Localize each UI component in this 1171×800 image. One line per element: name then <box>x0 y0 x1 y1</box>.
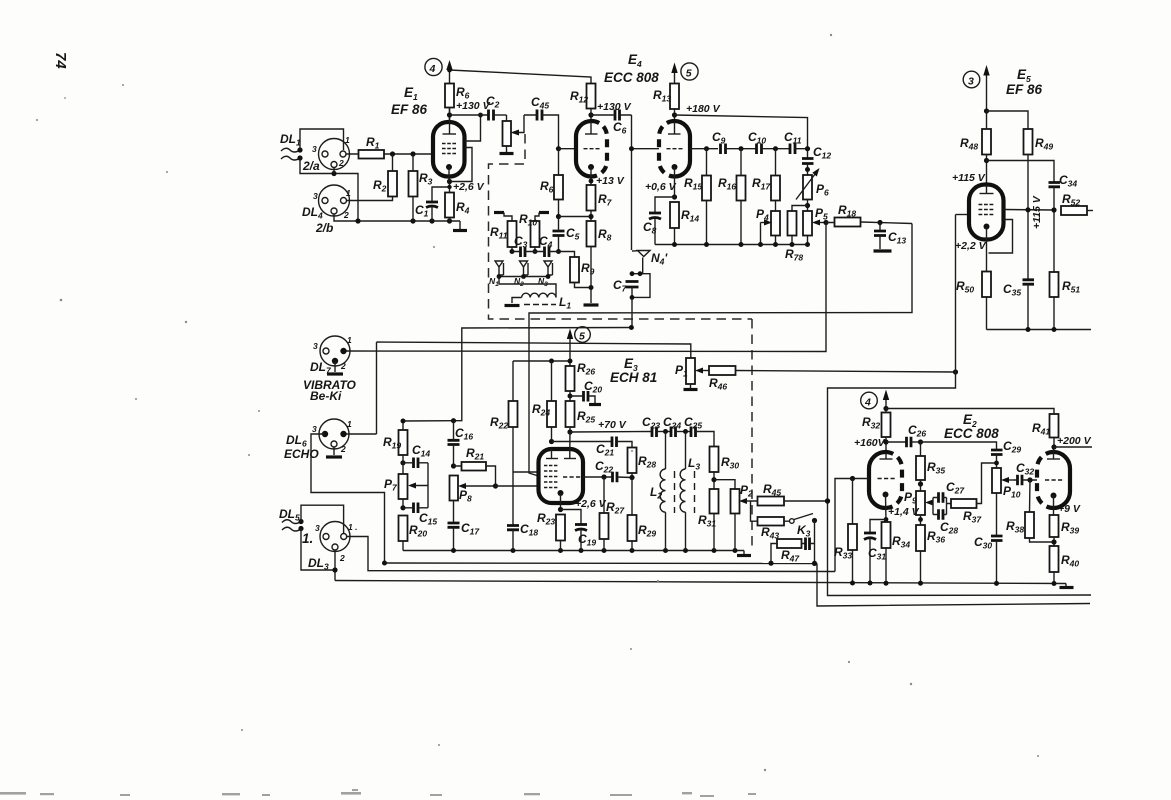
svg-text:3: 3 <box>312 144 317 154</box>
wire E4b grid <box>632 148 660 150</box>
scan specks <box>36 34 1039 771</box>
wire R22/R24 top row <box>513 360 570 362</box>
junction C13 <box>877 220 882 225</box>
ground ECH81 bus <box>743 551 745 555</box>
tube E5 suppressor to cathode <box>989 220 1013 254</box>
svg-text:+2,6 V: +2,6 V <box>453 181 485 193</box>
capacitor C22 <box>613 472 618 483</box>
P9 wiper arrow <box>928 502 933 504</box>
junction L3 top <box>683 429 688 434</box>
svg-text:4: 4 <box>429 63 436 75</box>
wire P8 node into tube E3 <box>496 485 539 487</box>
wire neon bottoms row <box>499 276 548 278</box>
E5 bottom bus <box>987 329 1092 331</box>
junction R33 top <box>850 476 855 481</box>
tube E3 triode anode bar <box>546 458 558 460</box>
wire R48 bottom to C34 <box>987 161 1055 183</box>
P7 wiper arrow <box>411 485 428 487</box>
junction heptode anode node <box>567 429 572 434</box>
potentiometer P4 <box>771 211 780 236</box>
chassis bar above R10 <box>539 211 549 214</box>
resistor R21 <box>462 462 487 471</box>
svg-text:+9 V: +9 V <box>1058 503 1081 515</box>
tube E4b anode bar <box>668 133 681 135</box>
junction R45 right <box>825 498 830 503</box>
tube E1 grid dashes <box>442 144 456 154</box>
P1 wiper arrow <box>698 370 709 372</box>
capacitor C1 electrolytic <box>432 187 449 201</box>
junction R2 top <box>390 151 395 156</box>
capacitor C23 <box>652 427 657 438</box>
svg-text:+2,6 V: +2,6 V <box>575 498 607 510</box>
resistor R41 <box>1050 414 1059 438</box>
svg-text:1: 1 <box>345 135 350 145</box>
wire DL1 box to pin 1 <box>300 129 344 150</box>
junction R26 bottom <box>569 391 571 401</box>
junction P8-line bus <box>825 498 830 503</box>
wire C26 node to C29 <box>921 442 997 450</box>
wire C27/C28 tie <box>932 498 934 515</box>
resistor R12 <box>587 84 596 109</box>
wire E5 grid chain down-left-down <box>828 215 1092 596</box>
wire DL1 lower contact to node 2a <box>300 158 358 221</box>
resistor R19 <box>399 430 408 455</box>
resistor R39 <box>1050 515 1059 537</box>
neon N2 <box>520 261 529 277</box>
junction R39/R40 <box>1051 539 1056 544</box>
dashed box vibrato oscillator <box>489 134 753 319</box>
potentiometer P7 <box>399 474 408 499</box>
wire E4b grid to RC ladder <box>690 148 718 150</box>
junction R15 top <box>704 146 709 151</box>
plug contact dots DL5 <box>298 519 303 524</box>
resistor R13 <box>670 84 679 110</box>
tube E4b cathode <box>672 164 678 170</box>
svg-text:2/b: 2/b <box>315 221 333 235</box>
resistor R23 <box>556 515 565 541</box>
tube E2b anode bar <box>1047 458 1060 460</box>
tube E3 heptode anode bar <box>564 458 576 460</box>
junction R48 bottom <box>984 158 989 163</box>
potentiometer P8 <box>450 476 459 501</box>
resistor R46 <box>709 366 736 375</box>
ground symbol E1 cathode bus <box>459 221 461 229</box>
junction R28 bottom / R29 <box>629 475 634 480</box>
E2 ground bus junctions <box>850 581 855 586</box>
L3 core dashes <box>694 471 696 513</box>
capacitor C9 <box>721 144 726 155</box>
wire R19 top row <box>403 420 454 422</box>
P5 wiper arrow from R18 <box>816 222 827 224</box>
ECH81 bottom bus <box>403 550 744 552</box>
wire grid E4a <box>559 148 577 150</box>
P2 wiper arrow <box>743 500 750 502</box>
resistor R37 <box>951 499 977 508</box>
connector DL4 <box>319 185 350 216</box>
tube E3 triode grid dashes <box>563 476 580 478</box>
junction P8 wiper <box>493 483 498 488</box>
echo ground bus <box>385 562 818 565</box>
circled 4 <box>425 58 442 75</box>
resistor R50 <box>982 272 991 298</box>
wire top node to R49 <box>987 111 1029 129</box>
circled 4 (E2) <box>861 392 878 409</box>
capacitor C28 <box>939 509 944 520</box>
junction L2 top <box>663 429 668 434</box>
svg-text:3: 3 <box>315 523 320 533</box>
capacitor C27 <box>939 492 944 503</box>
svg-text:+115 V: +115 V <box>952 172 986 184</box>
wire DL6 pin3 to echo ground bus <box>311 434 385 563</box>
tube E3 cathode <box>558 490 564 496</box>
capacitor C17 <box>448 523 460 527</box>
wire C6 down to E4b grid and N4 <box>631 115 633 250</box>
svg-text:2: 2 <box>343 210 349 220</box>
capacitor C20 <box>584 391 589 402</box>
inductor L3 <box>685 432 687 470</box>
tube E1 anode bar <box>443 133 457 135</box>
svg-text:EF 86: EF 86 <box>1006 82 1043 97</box>
tube E1 EF86 envelope <box>433 122 465 177</box>
neon N1 <box>495 261 504 277</box>
wire feedback line H1 (C13 node to ECH81) <box>529 224 912 477</box>
resistor R78 <box>788 211 797 236</box>
junction P7 bottom <box>400 505 405 510</box>
potentiometer P3 (vibrato depth) <box>503 121 512 146</box>
svg-text:1.: 1. <box>302 531 313 546</box>
junction R12 bottom +130V <box>588 112 593 117</box>
svg-text:ECH 81: ECH 81 <box>610 370 657 385</box>
svg-text:3: 3 <box>968 76 974 88</box>
junction +130V node <box>447 112 452 117</box>
tube E1 suppressor to cathode wire <box>451 148 472 182</box>
svg-text:+115 V: +115 V <box>1031 195 1043 229</box>
capacitor C2 <box>489 110 494 121</box>
capacitor C14 <box>414 458 419 469</box>
supply arrow 5 <box>674 70 676 84</box>
junction +160V node <box>883 439 888 444</box>
resistor R4 <box>445 193 454 218</box>
capacitor C31 electrolytic <box>870 520 886 533</box>
resistor R3 <box>409 171 418 197</box>
resistor R24 <box>547 401 556 427</box>
capacitor C13 <box>874 231 886 236</box>
svg-text:+0,6 V: +0,6 V <box>645 181 677 193</box>
svg-text:2: 2 <box>338 158 344 168</box>
potentiometer P6 <box>803 175 812 200</box>
capacitor C21 <box>612 437 617 448</box>
capacitor C16 <box>448 440 460 444</box>
P8 wiper arrow <box>461 485 496 487</box>
wire bus drop to lower line <box>817 564 1090 607</box>
resistor R43 <box>758 517 785 526</box>
plug squiggle DL1 <box>281 148 300 160</box>
potentiometer P9 <box>916 491 925 515</box>
ground below P3 <box>500 152 514 155</box>
switch K3 <box>790 519 795 524</box>
resistor R32 <box>882 413 891 438</box>
resistor R40 <box>1050 546 1059 572</box>
resistor R2 <box>388 171 397 197</box>
tube E2a (left triode of E2) <box>869 452 886 508</box>
wire to L1 <box>499 277 556 295</box>
resistor R30 <box>710 447 719 473</box>
tube E2a grid dashes <box>878 478 895 480</box>
connector DL7 <box>320 336 350 366</box>
resistor R47 with series capacitor <box>777 539 802 548</box>
junction P6 bottom <box>807 200 809 212</box>
capacitor C15 <box>414 503 419 514</box>
wire DL3 pin2 to main ground bus <box>334 550 336 581</box>
connector DL3 <box>320 522 350 552</box>
wire H2 (P8 top chain) <box>454 328 632 421</box>
wire heptode anode +70V row <box>570 431 652 434</box>
svg-text:3: 3 <box>312 424 317 434</box>
wire DL5 upper to DL3 pin1 box <box>301 505 344 533</box>
dashed box echo section right edge <box>751 319 753 548</box>
svg-text:+70 V: +70 V <box>598 419 627 431</box>
junction cathode node +2,6V <box>447 179 452 184</box>
resistor R27 <box>600 513 609 539</box>
wire supply4 to R12 <box>450 70 592 84</box>
potentiometer P10 <box>992 468 1001 493</box>
svg-text:74: 74 <box>52 52 69 69</box>
supply arrow 5 (ECH81) <box>569 336 571 366</box>
tube E2b (right triode of E2) <box>1037 452 1054 508</box>
ground under R8 <box>590 288 592 304</box>
svg-text:2/a: 2/a <box>302 159 320 173</box>
resistor R17 <box>771 176 780 201</box>
L1 core dashes <box>524 304 556 306</box>
resistor R20 <box>399 516 408 542</box>
neon N4 <box>632 251 650 274</box>
junction R17 top <box>773 146 778 151</box>
capacitor C8 electrolytic <box>655 197 675 212</box>
svg-text:1: 1 <box>347 335 352 345</box>
tube E1 screen wire to +130V <box>465 115 481 141</box>
junction C12 bottom <box>805 167 810 172</box>
svg-text:+1,4 V: +1,4 V <box>888 506 920 518</box>
wire E5 grid <box>956 214 970 216</box>
junction R30 bottom <box>711 477 716 482</box>
wire C5 row to R9 <box>559 252 575 258</box>
potentiometer P5 <box>803 211 812 236</box>
tube E4a cathode <box>588 164 594 170</box>
junction echo bus left <box>382 561 387 566</box>
capacitor C32 <box>1018 475 1023 486</box>
capacitor C3 <box>521 247 526 258</box>
resistor R51 <box>1050 272 1059 297</box>
ground DL6 <box>333 447 335 455</box>
resistor R1 <box>359 150 385 159</box>
svg-text:+200 V: +200 V <box>1057 435 1092 447</box>
svg-text:3: 3 <box>313 191 318 201</box>
tube E3 grid dashes hexode <box>544 466 557 488</box>
inductor L1 <box>522 293 556 297</box>
junction P10 top <box>994 461 999 466</box>
L2 core dashes <box>674 471 676 513</box>
oscillator bottom bus <box>655 244 808 246</box>
resistor R11 <box>508 221 517 247</box>
junction R47 bottom bus <box>768 561 773 566</box>
neon N3 <box>544 261 553 277</box>
svg-text:+180 V: +180 V <box>686 103 721 115</box>
junction R7 bottom <box>588 214 593 219</box>
wire R5/C5 to R7 bottom <box>559 216 592 218</box>
wire DL3 pin1 to echo return line <box>347 537 835 572</box>
svg-text:ECC 808: ECC 808 <box>604 70 659 85</box>
ground under L1 <box>505 304 520 307</box>
capacitor C29 <box>991 450 1003 455</box>
chassis bar above R11 <box>494 211 504 214</box>
capacitor C11 <box>790 144 795 155</box>
svg-text:5: 5 <box>686 68 692 80</box>
tube E4a (ECC808 left triode) <box>576 121 592 177</box>
junction R35 bottom <box>918 481 923 486</box>
resistor R52 <box>1061 206 1087 215</box>
junction triode anode node <box>549 439 554 444</box>
capacitor C10 <box>757 144 762 155</box>
supply arrow 4 (E2) <box>885 397 887 409</box>
tube E2b cathode <box>1051 493 1057 499</box>
wire DL6 pin1 to V1 <box>347 433 377 435</box>
resistor R49 <box>1024 129 1033 155</box>
plug squiggle DL5 <box>282 520 301 531</box>
svg-text:EF 86: EF 86 <box>391 102 428 117</box>
wire triode anode to C21 <box>552 441 612 443</box>
capacitor C7 <box>626 282 639 288</box>
supply arrow 3 <box>986 73 988 111</box>
junction pin2 DL1 <box>331 171 336 176</box>
junction R3 top <box>410 151 415 156</box>
tube E2b grid dashes <box>1045 479 1062 481</box>
tube E1 anode lead <box>449 108 451 135</box>
junction R46 / E5 grid <box>953 369 958 374</box>
junction E2b grid / R38 <box>1027 477 1032 482</box>
svg-text:Be-Ki: Be-Ki <box>310 389 342 403</box>
ground DL7 <box>334 361 336 372</box>
resistor R29 <box>628 515 637 541</box>
potentiometer P1 <box>686 358 695 384</box>
capacitor C24 <box>671 427 676 438</box>
resistor R31 <box>710 489 719 514</box>
junction C11/C12 <box>805 146 810 151</box>
junction R19 bottom <box>400 460 405 465</box>
resistor R16 <box>737 176 746 201</box>
tube E5 EF86 envelope <box>969 185 1004 240</box>
tube E5 cathode <box>984 224 990 230</box>
tube E5 anode bar <box>980 193 994 195</box>
capacitor C35 <box>1023 280 1035 284</box>
ground P1 <box>684 388 698 391</box>
ground C20 <box>589 403 601 406</box>
junction cathode E4b <box>672 194 677 199</box>
resistor R33 <box>848 524 857 550</box>
svg-text:2: 2 <box>339 553 345 563</box>
capacitor C4 <box>545 247 550 258</box>
resistor R26 <box>566 366 575 391</box>
junction R48/R49 top <box>984 108 989 113</box>
svg-text:3: 3 <box>313 341 318 351</box>
capacitor C34 <box>1049 183 1061 187</box>
wire R30 to P2 top <box>714 480 735 489</box>
capacitor C18 <box>507 526 519 530</box>
wire E2a grid to R33 <box>835 479 869 572</box>
tube E2a anode bar <box>880 458 893 460</box>
capacitor C45 <box>537 110 542 121</box>
resistor R36 <box>916 525 925 551</box>
wire R22 bottom into tube grid <box>513 471 539 473</box>
resistor R6 <box>445 84 454 108</box>
junction R16 top <box>739 146 744 151</box>
circled 5 <box>681 63 698 80</box>
resistor R15 <box>702 176 711 201</box>
junction R8/R9 <box>589 285 594 290</box>
tube E4b (ECC808 right triode) <box>659 121 675 177</box>
junction R13 bottom +180V <box>672 112 677 117</box>
resistor R35 <box>916 456 925 480</box>
capacitor C19 electrolytic <box>561 510 582 525</box>
tube E5 screen wire to +115V line <box>1004 209 1055 212</box>
resistor R22 <box>509 401 518 427</box>
main ground bus to E2 <box>335 581 1066 584</box>
junction R5 top / E4a grid <box>556 146 561 151</box>
junction row C3/C4 <box>510 249 515 254</box>
capacitor C5 <box>553 231 565 236</box>
wire DL4 pin1 to R2 <box>347 197 393 201</box>
junction cathode E3 <box>558 507 563 512</box>
svg-text:ECHO: ECHO <box>284 447 319 461</box>
resistor R10 <box>531 221 540 247</box>
svg-text:ECC 808: ECC 808 <box>944 426 999 441</box>
P10 wiper arrow <box>1004 479 1013 481</box>
junction R5 bottom <box>556 214 561 219</box>
potentiometer wiper arrow <box>513 115 524 133</box>
resistor R18 <box>835 218 861 227</box>
wire +160V to C26 <box>886 441 906 443</box>
tube E3 ECH81 envelope <box>539 449 584 503</box>
junction +200V <box>1051 444 1056 449</box>
circled 5 (mid) <box>575 327 591 343</box>
resistor R7 <box>587 185 596 211</box>
wire C14/C15 tie <box>427 463 429 508</box>
wire DL4 pin2 to ground bus <box>334 214 460 221</box>
tube E4b grid dashes <box>667 148 683 150</box>
svg-text:5: 5 <box>579 331 585 343</box>
wire C7 bottom loop to N4 <box>633 274 650 298</box>
resistor R25 <box>566 401 575 427</box>
junction R27 top <box>601 474 606 479</box>
wire +130V node to C2 <box>450 114 489 116</box>
svg-text:2: 2 <box>340 444 346 454</box>
tube E2a cathode <box>883 492 889 498</box>
resistor R28 <box>628 448 637 474</box>
capacitor C30 <box>991 536 1003 541</box>
wire V1 DL6 pin1 riser <box>376 342 378 434</box>
svg-text:+2,2 V: +2,2 V <box>955 240 987 252</box>
capacitor C12 <box>802 159 814 164</box>
supply arrow 4 <box>449 67 451 84</box>
potentiometer P2 <box>731 489 740 514</box>
resistor R34 <box>882 522 891 548</box>
ground under C13 <box>874 249 892 252</box>
svg-text:+13 V: +13 V <box>596 175 625 187</box>
connector DL6 <box>319 419 349 449</box>
svg-text:1: 1 <box>347 419 352 429</box>
inductor L2 <box>665 432 667 470</box>
wire H3 (long line to P1) <box>377 342 691 358</box>
junction supply E2 <box>883 406 888 411</box>
